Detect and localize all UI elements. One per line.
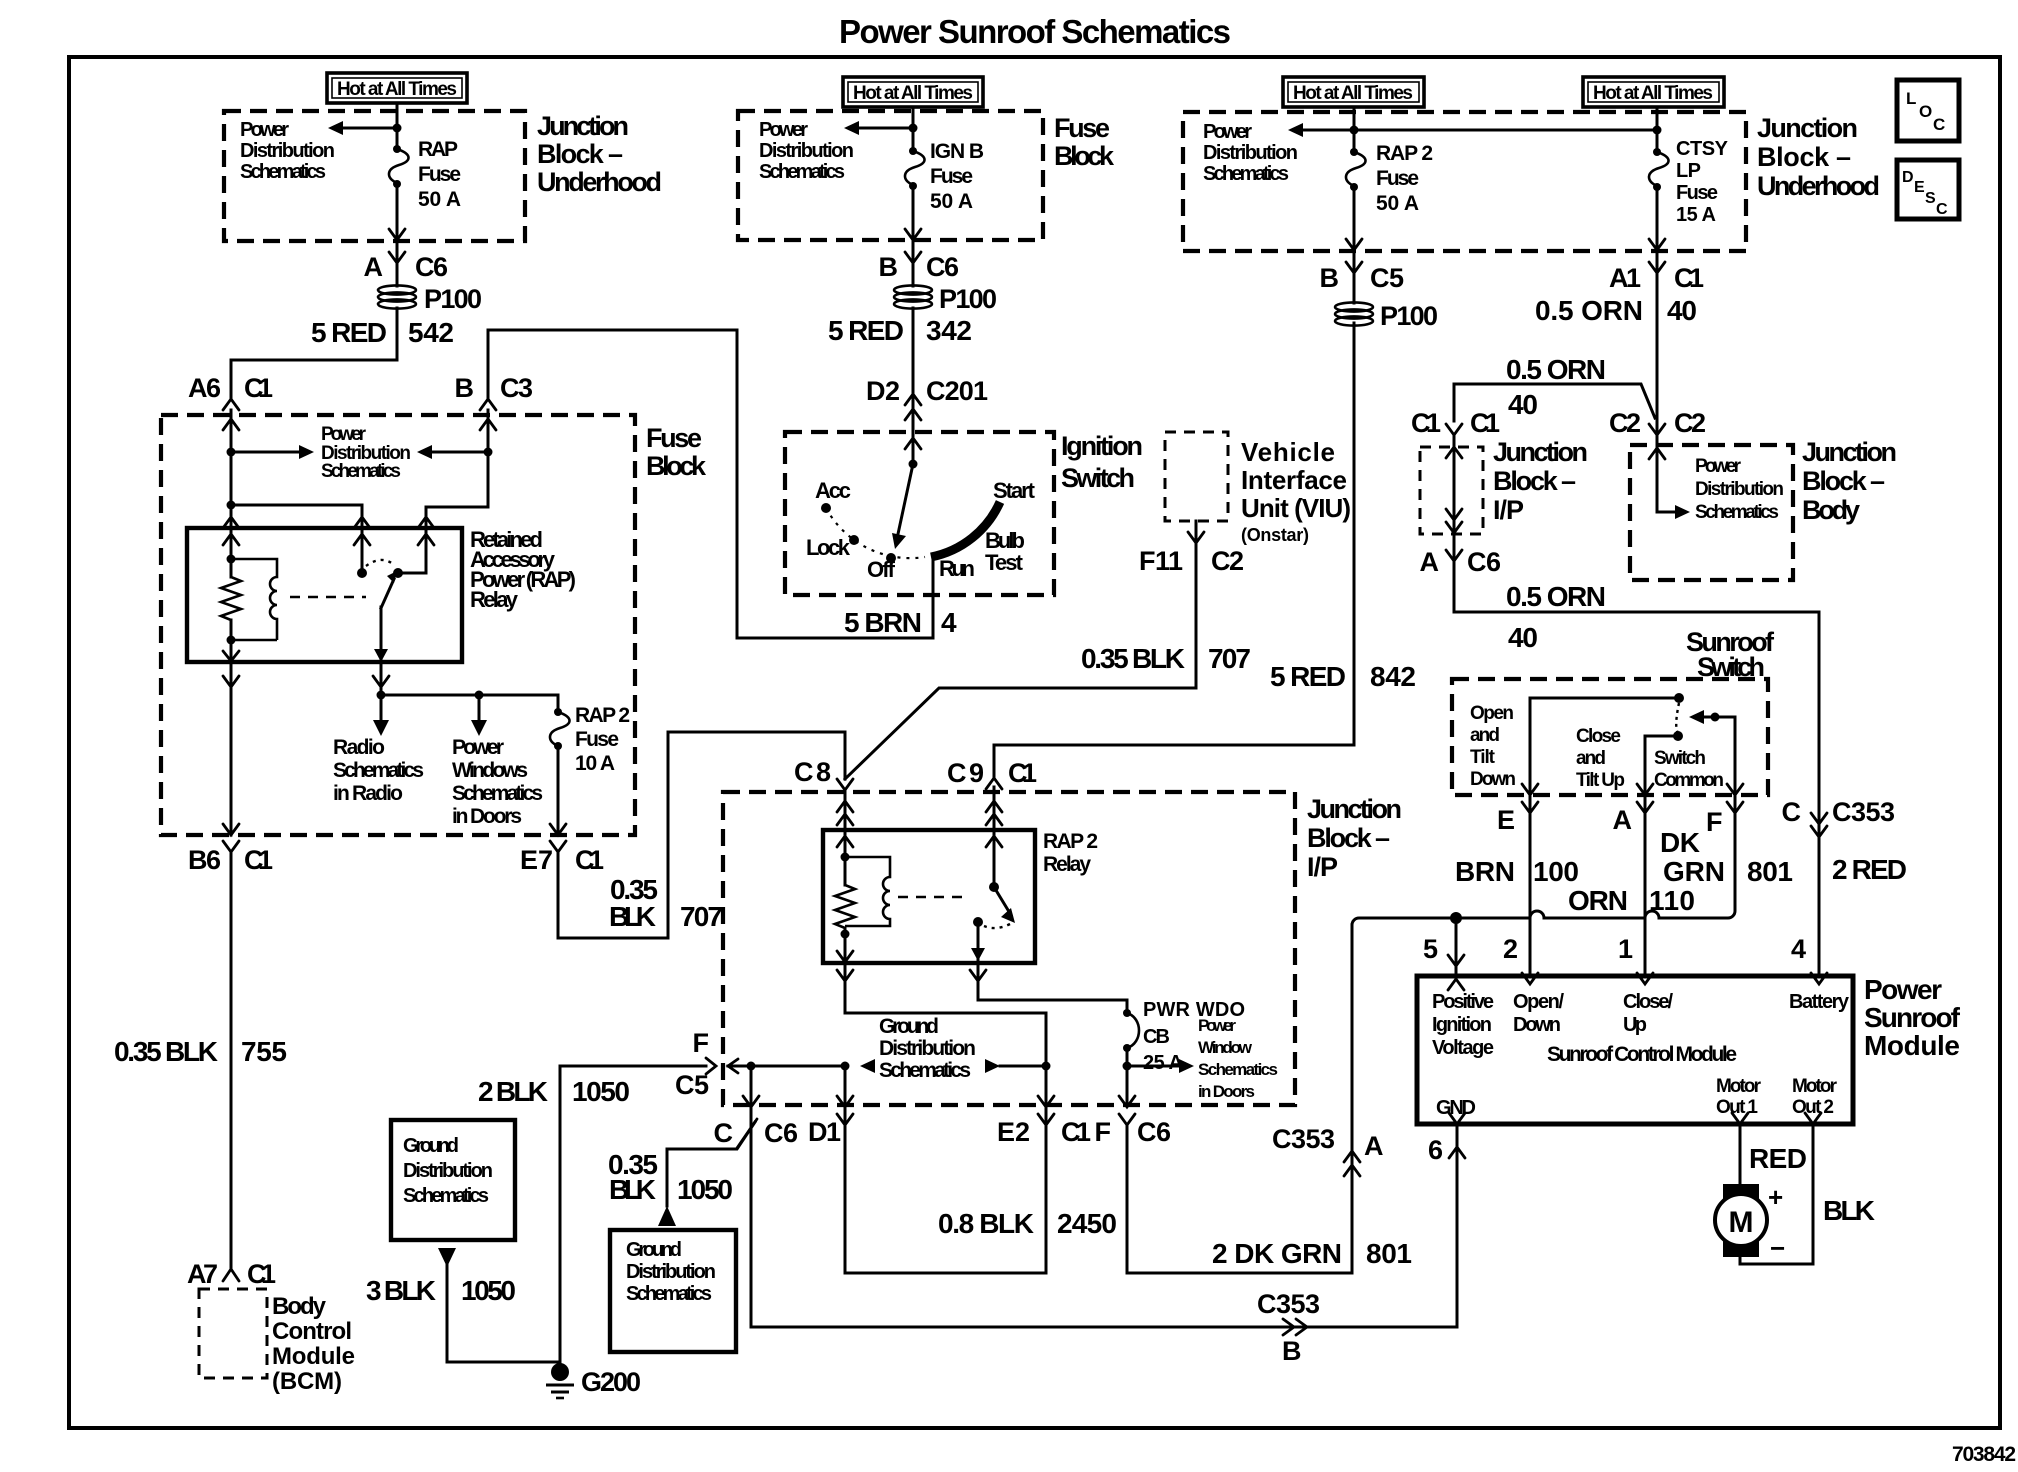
wire A C6 down, right, down to C C353 xyxy=(1454,534,1819,973)
svg-text:Block –: Block – xyxy=(1802,466,1885,496)
pin label Motor Out 1 xyxy=(1716,1076,1762,1118)
arrow right from label to E2 wire xyxy=(985,1059,1000,1073)
chevron below relay2 (output) xyxy=(970,970,986,981)
wire P100 down, left to A6 C1 xyxy=(231,308,397,399)
wire down to ignition switch xyxy=(912,308,915,464)
svg-text:Voltage: Voltage xyxy=(1432,1037,1494,1059)
wire fuse down through edge to C2 xyxy=(1656,187,1659,447)
label RAP 2 Fuse 10 A xyxy=(575,704,630,775)
wire label ORN 110 xyxy=(1568,885,1695,916)
svg-text:0.35 BLK: 0.35 BLK xyxy=(114,1036,218,1067)
svg-text:801: 801 xyxy=(1747,856,1793,887)
svg-text:Positive: Positive xyxy=(1432,991,1494,1013)
svg-text:Power: Power xyxy=(1198,1016,1236,1035)
svg-text:Schematics: Schematics xyxy=(626,1283,712,1305)
Power Sunroof Module box xyxy=(1417,976,1853,1124)
svg-text:C1: C1 xyxy=(247,1259,276,1289)
svg-text:Windows: Windows xyxy=(452,759,528,782)
wire label 0.5 ORN / 40 (to sunroof) xyxy=(1506,581,1606,653)
connector F11 C2 xyxy=(1139,532,1244,576)
chevron down at block edge (B6) xyxy=(223,824,239,835)
node dot (D1 branch) xyxy=(841,1062,850,1071)
dashed mechanical link (relay2) xyxy=(898,896,966,898)
connector E xyxy=(1497,802,1538,835)
relay2 coil wire xyxy=(844,830,847,885)
node dot (C C6 branch) xyxy=(747,1062,756,1071)
wire label 5 BRN 4 xyxy=(844,607,957,638)
arrow to Power Window Schematics in Doors xyxy=(1127,1065,1180,1068)
wire open contact down to E xyxy=(1529,698,1532,795)
svg-text:Schematics: Schematics xyxy=(1695,502,1779,523)
wire A down to module pin 1 xyxy=(1644,795,1647,976)
svg-text:and: and xyxy=(1576,748,1606,769)
label Power Distribution Schematics (jb2) xyxy=(1203,121,1298,185)
relay2 coil (inductor) xyxy=(845,857,890,926)
connector Motor Out 1 xyxy=(1732,1113,1748,1124)
svg-text:O: O xyxy=(1919,102,1932,121)
fuse RAP 2 Fuse 10 A xyxy=(550,708,570,750)
svg-text:1050: 1050 xyxy=(461,1275,516,1306)
motor M (sunroof motor) xyxy=(1715,1182,1785,1263)
connector pin 4 xyxy=(1791,934,1827,984)
relay2 output wire with arrow xyxy=(977,922,980,963)
svg-text:Power: Power xyxy=(452,736,504,759)
connector pin 1 xyxy=(1618,934,1653,984)
svg-text:Schematics: Schematics xyxy=(240,161,326,183)
wire relay2 output to PWR WDO CB xyxy=(978,963,1127,1012)
Fuse Block dashed box (left) xyxy=(161,415,635,835)
svg-text:C1: C1 xyxy=(1061,1117,1091,1147)
svg-text:D2: D2 xyxy=(866,376,900,406)
arrow right to label xyxy=(1675,505,1690,519)
label Power Window Schematics in Doors xyxy=(1198,1016,1278,1101)
svg-text:ORN: ORN xyxy=(1568,885,1628,916)
connector F C6 xyxy=(1095,1114,1172,1147)
svg-text:−: − xyxy=(1770,1233,1785,1263)
svg-text:Close/: Close/ xyxy=(1623,991,1673,1013)
svg-text:C1: C1 xyxy=(575,845,604,875)
svg-text:Switch: Switch xyxy=(1061,463,1135,493)
resistor bottom wire xyxy=(230,620,233,662)
label RAP Fuse 50 A xyxy=(418,138,461,211)
wire from Hot2 down xyxy=(912,107,915,150)
svg-text:(BCM): (BCM) xyxy=(272,1368,342,1395)
svg-text:Distribution: Distribution xyxy=(1695,479,1784,500)
svg-text:C5: C5 xyxy=(675,1070,709,1100)
svg-text:C6: C6 xyxy=(1137,1117,1171,1147)
svg-text:Block –: Block – xyxy=(1307,823,1390,853)
svg-text:Fuse: Fuse xyxy=(1376,167,1419,190)
svg-text:10 A: 10 A xyxy=(575,752,615,775)
grommet P100 (middle) xyxy=(894,284,997,314)
svg-text:Body: Body xyxy=(272,1293,327,1320)
connector C8 xyxy=(794,757,853,790)
Junction Block - I/P small dashed box xyxy=(1420,447,1483,534)
svg-text:2 DK GRN: 2 DK GRN xyxy=(1212,1238,1342,1269)
label Ignition Switch xyxy=(1061,431,1143,493)
connector B6 C1 xyxy=(188,841,273,875)
label Power Distribution Schematics (jb1) xyxy=(240,119,335,183)
svg-text:Radio: Radio xyxy=(333,736,385,759)
label RAP 2 Fuse 50 A xyxy=(1376,142,1433,215)
svg-text:Relay: Relay xyxy=(470,587,519,612)
arrow left to Ground Distribution Schematics xyxy=(860,1059,875,1073)
contact Off xyxy=(886,553,896,563)
svg-text:5: 5 xyxy=(1423,934,1438,964)
grommet P100 (left) xyxy=(378,284,482,314)
wire label 0.35 BLK 755 xyxy=(114,1036,287,1067)
connector Motor Out 2 xyxy=(1805,1113,1821,1124)
label Fuse Block (middle) xyxy=(1054,113,1115,171)
wire to P100 xyxy=(396,241,399,286)
svg-text:Ignition: Ignition xyxy=(1432,1014,1492,1036)
svg-text:Distribution: Distribution xyxy=(1203,142,1298,164)
svg-text:100: 100 xyxy=(1533,856,1579,887)
svg-text:in Doors: in Doors xyxy=(1198,1082,1255,1101)
ignition switch blade xyxy=(898,464,913,534)
svg-text:Open/: Open/ xyxy=(1513,991,1564,1013)
relay output wire with arrow xyxy=(380,607,383,662)
svg-text:DK: DK xyxy=(1660,827,1700,858)
wire label 5 RED 542 xyxy=(311,317,454,348)
label Retained Accessory Power (RAP) Relay xyxy=(470,527,576,612)
wire to Power Distribution arrow xyxy=(1657,447,1676,512)
chevron up inside ignition box xyxy=(905,438,921,449)
label PWR WDO CB 25 A xyxy=(1143,999,1245,1074)
svg-text:Out 1: Out 1 xyxy=(1716,1097,1758,1118)
svg-text:Ground: Ground xyxy=(403,1135,459,1157)
pin label Motor Out 2 xyxy=(1792,1076,1838,1118)
svg-text:Fuse: Fuse xyxy=(930,165,973,188)
svg-text:Power: Power xyxy=(759,119,808,141)
svg-text:Lock: Lock xyxy=(806,535,851,560)
contact Lock xyxy=(849,535,859,545)
svg-text:801: 801 xyxy=(1366,1238,1412,1269)
svg-text:Unit (VIU): Unit (VIU) xyxy=(1241,493,1351,523)
Ground Distribution Schematics box 2 xyxy=(610,1230,736,1352)
label RAP 2 Relay xyxy=(1043,830,1098,876)
svg-text:Schematics: Schematics xyxy=(879,1059,971,1082)
svg-text:RAP: RAP xyxy=(418,138,458,161)
svg-text:4: 4 xyxy=(1791,934,1806,964)
svg-text:Vehicle: Vehicle xyxy=(1241,437,1335,467)
node dot on B wire xyxy=(484,448,493,457)
svg-text:Block: Block xyxy=(1054,141,1115,171)
svg-text:C6: C6 xyxy=(926,252,959,282)
svg-text:Distribution: Distribution xyxy=(626,1261,716,1283)
svg-text:707: 707 xyxy=(680,901,723,932)
wire C C6 drop xyxy=(750,1066,753,1105)
svg-text:Underhood: Underhood xyxy=(1757,171,1880,201)
svg-text:0.5 ORN: 0.5 ORN xyxy=(1506,581,1606,612)
svg-text:2: 2 xyxy=(1503,934,1518,964)
svg-text:Distribution: Distribution xyxy=(403,1160,493,1182)
svg-text:C201: C201 xyxy=(926,376,988,406)
wire Run output down-left-up to B C3 xyxy=(488,330,933,638)
node dot at 231,505 and link to relay common xyxy=(227,501,236,510)
dashed travel arc Acc-Lock-Off-Run xyxy=(826,508,925,558)
Fuse Block dashed box (middle) xyxy=(738,111,1043,240)
connector B C3 xyxy=(455,373,534,410)
node dot branch xyxy=(475,691,484,700)
wire F down and left along bus with hops xyxy=(1352,795,1735,1165)
wire 3 BLK 1050 to G200 xyxy=(447,1264,560,1362)
chevron down at edge (E2) xyxy=(1038,1096,1054,1107)
svg-text:Hot at All Times: Hot at All Times xyxy=(337,79,457,100)
label Junction Block - Body xyxy=(1802,437,1897,525)
double chevron down inside (bottom) xyxy=(1446,509,1462,520)
Hot at All Times box 1 xyxy=(327,73,467,103)
svg-text:in Doors: in Doors xyxy=(452,805,522,828)
svg-text:F: F xyxy=(1706,807,1723,837)
wire D1 drop xyxy=(844,1066,847,1105)
svg-text:RAP 2: RAP 2 xyxy=(1043,830,1098,853)
label Power Distribution Schematics (fuse block) xyxy=(321,424,411,482)
node dot xyxy=(1653,126,1662,135)
connector A xyxy=(1613,802,1654,835)
svg-text:Fuse: Fuse xyxy=(575,728,619,751)
wire label 2 BLK 1050 xyxy=(478,1076,630,1107)
connector A7 C1 xyxy=(187,1259,276,1289)
wire A6 entering fuse block xyxy=(230,410,233,505)
svg-text:P100: P100 xyxy=(1380,301,1438,331)
svg-text:F: F xyxy=(693,1028,710,1058)
wire CB down to F C6 xyxy=(1126,1048,1129,1105)
wire link to relay switch-common xyxy=(231,505,362,528)
svg-text:5 BRN: 5 BRN xyxy=(844,607,922,638)
svg-text:P100: P100 xyxy=(424,284,482,314)
svg-text:Schematics: Schematics xyxy=(1198,1060,1278,1079)
wire label 0.5 ORN 40 (A1 wire) xyxy=(1535,295,1697,326)
chevron above relay box (231) xyxy=(223,517,239,528)
svg-text:E2: E2 xyxy=(997,1117,1030,1147)
connector F xyxy=(1706,802,1743,837)
double chevron (C9 wire) xyxy=(986,801,1002,812)
circuit breaker PWR WDO CB 25 A xyxy=(1123,1009,1139,1052)
label Switch Common xyxy=(1654,748,1724,791)
ground G200 xyxy=(546,1363,641,1398)
svg-text:Module: Module xyxy=(1864,1030,1960,1061)
svg-text:C6: C6 xyxy=(415,252,448,282)
svg-text:Battery: Battery xyxy=(1789,991,1850,1013)
wire label 0.8 BLK 2450 xyxy=(938,1208,1117,1239)
wire pin 5 drop xyxy=(1455,918,1458,976)
svg-text:A: A xyxy=(1613,805,1633,835)
svg-text:B: B xyxy=(1282,1336,1302,1366)
svg-text:Down: Down xyxy=(1513,1014,1561,1036)
chevron down at edge (A1) xyxy=(1649,239,1665,250)
wire distribution bus xyxy=(381,694,558,697)
label Bulb Test xyxy=(985,528,1025,575)
svg-text:B6: B6 xyxy=(188,845,221,875)
chevron down at edge (C) xyxy=(743,1096,759,1107)
relay blade travel (dotted arc) xyxy=(366,560,393,566)
svg-text:Schematics: Schematics xyxy=(321,461,401,482)
wire label 5 RED 342 xyxy=(828,315,972,346)
svg-text:C6: C6 xyxy=(764,1118,798,1148)
svg-text:Relay: Relay xyxy=(1043,853,1091,876)
Hot at All Times box 3 xyxy=(1283,77,1424,107)
svg-text:Schematics: Schematics xyxy=(1203,163,1289,185)
chevron up inside JB body xyxy=(1649,448,1665,459)
dashed mechanical link xyxy=(290,596,366,598)
relay NO contact wire jog xyxy=(402,528,426,573)
svg-text:40: 40 xyxy=(1667,295,1697,326)
fuse IGN B Fuse 50 A xyxy=(905,147,925,190)
node dot xyxy=(1350,126,1359,135)
svg-text:Body: Body xyxy=(1802,495,1860,525)
wire C C6 down to GND bus xyxy=(750,1105,753,1327)
svg-text:Ground: Ground xyxy=(626,1239,682,1261)
svg-text:A: A xyxy=(364,252,384,282)
svg-text:Motor: Motor xyxy=(1792,1076,1838,1097)
svg-text:C8: C8 xyxy=(794,757,831,787)
wire fuse down through edge xyxy=(1353,187,1356,303)
svg-text:542: 542 xyxy=(408,317,454,348)
svg-text:1050: 1050 xyxy=(572,1076,630,1107)
relay coil (inductor) xyxy=(231,559,277,640)
label Radio Schematics in Radio xyxy=(333,736,424,805)
chevron down inside box bottom (F) xyxy=(1727,784,1743,795)
svg-text:Schematics: Schematics xyxy=(759,161,845,183)
svg-text:IGN B: IGN B xyxy=(930,140,984,163)
svg-text:25 A: 25 A xyxy=(1143,1052,1183,1074)
label Open and Tilt Down xyxy=(1470,703,1516,790)
svg-text:342: 342 xyxy=(926,315,972,346)
svg-text:C: C xyxy=(1782,797,1802,827)
svg-text:C: C xyxy=(714,1118,734,1148)
wire 0.35 BLK 1050 branch to ground box xyxy=(667,1122,755,1206)
arrow to Power Distribution Schematics xyxy=(328,121,343,135)
connector A C6 xyxy=(1420,547,1502,577)
svg-text:Interface: Interface xyxy=(1241,465,1347,495)
wire GND pin 6 to G200 bus xyxy=(751,1124,1457,1327)
wire F11 to C8 diagonal xyxy=(845,688,1196,779)
Junction Block - Underhood dashed box 2 xyxy=(1183,112,1746,251)
svg-text:Open: Open xyxy=(1470,703,1514,724)
wire label 0.35 BLK 707 (right) xyxy=(1081,643,1251,674)
svg-text:RAP 2: RAP 2 xyxy=(1376,142,1433,165)
svg-text:5 RED: 5 RED xyxy=(828,315,904,346)
connector B C6 xyxy=(879,252,960,282)
chevron up inside relay2 (coil) xyxy=(837,836,853,847)
label Power Windows Schematics in Doors xyxy=(452,736,543,828)
Junction Block - I/P dashed box (center) xyxy=(723,792,1295,1105)
svg-text:842: 842 xyxy=(1370,661,1416,692)
svg-text:A: A xyxy=(1420,547,1440,577)
svg-text:E: E xyxy=(1914,179,1925,196)
svg-text:Schematics: Schematics xyxy=(333,759,424,782)
wire label 3 BLK 1050 xyxy=(366,1275,516,1306)
svg-text:CTSY: CTSY xyxy=(1676,138,1729,160)
off-page triangle (0.35 BLK 1050) xyxy=(658,1206,676,1226)
label Body Control Module (BCM) xyxy=(272,1293,355,1395)
svg-text:Ignition: Ignition xyxy=(1061,431,1143,461)
svg-text:Power: Power xyxy=(240,119,289,141)
svg-text:C2: C2 xyxy=(1674,408,1706,438)
wire from Hot1 into block xyxy=(396,103,399,148)
svg-text:BRN: BRN xyxy=(1455,856,1515,887)
Junction Block - Body dashed box xyxy=(1630,445,1793,580)
arrow right into Power Distribution label xyxy=(299,445,314,459)
svg-text:Sunroof Control Module: Sunroof Control Module xyxy=(1547,1043,1737,1066)
relay2 common wire xyxy=(993,830,996,884)
svg-text:Fuse: Fuse xyxy=(1054,113,1110,143)
connector pin 5 xyxy=(1423,934,1464,990)
wire from Hot3 down xyxy=(1353,107,1356,151)
connector E7 C1 xyxy=(520,841,604,875)
wire close contact to A xyxy=(1645,736,1678,795)
relay switch blade xyxy=(381,579,394,608)
svg-text:F11: F11 xyxy=(1139,546,1183,576)
connector C C353 xyxy=(1782,797,1896,837)
switch contact open/tilt-down xyxy=(1530,697,1679,700)
svg-text:A1: A1 xyxy=(1609,263,1641,293)
Hot at All Times box 2 xyxy=(843,77,983,107)
switch contact close/tilt-up (dotted travel) xyxy=(1676,703,1679,733)
wire 2 DK GRN 801: F C6 down, right, up through C353 A xyxy=(1127,925,1352,1273)
arrow to Power Distribution Schematics xyxy=(1288,123,1303,137)
svg-text:Hot at All Times: Hot at All Times xyxy=(1593,83,1713,104)
DESC reference box xyxy=(1897,160,1959,219)
svg-text:C: C xyxy=(1936,201,1948,218)
svg-text:B: B xyxy=(1320,263,1340,293)
connector D2 C201 xyxy=(866,376,988,420)
svg-text:Junction: Junction xyxy=(1802,437,1897,467)
svg-text:5 RED: 5 RED xyxy=(1270,661,1346,692)
svg-text:Sunroof: Sunroof xyxy=(1864,1002,1961,1033)
svg-text:Run: Run xyxy=(939,556,975,581)
double chevron (C8 wire) xyxy=(837,801,853,812)
resistor (RAP 2 relay) xyxy=(835,885,855,928)
svg-text:Switch: Switch xyxy=(1654,748,1706,769)
wire to RAP 2 fuse xyxy=(557,695,560,712)
Body Control Module (BCM) dashed box xyxy=(199,1289,267,1378)
label Fuse Block (left) xyxy=(646,423,707,481)
svg-text:Fuse: Fuse xyxy=(646,423,702,453)
svg-text:C2: C2 xyxy=(1609,408,1641,438)
svg-text:RED: RED xyxy=(1749,1143,1807,1174)
label Junction Block - I/P (small) xyxy=(1493,437,1588,525)
svg-text:CB: CB xyxy=(1143,1026,1170,1048)
svg-text:I/P: I/P xyxy=(1307,852,1338,882)
svg-text:Power: Power xyxy=(1203,121,1252,143)
svg-text:Distribution: Distribution xyxy=(759,140,854,162)
LOC reference box xyxy=(1897,80,1959,141)
connector chevron below relay (coil return) xyxy=(223,676,239,687)
label Junction Block - Underhood (right) xyxy=(1757,113,1880,201)
svg-text:B: B xyxy=(455,373,475,403)
svg-text:Block –: Block – xyxy=(537,139,623,169)
relay2 blade xyxy=(994,887,1011,915)
switch common blade arrow xyxy=(1711,713,1720,722)
svg-text:C353: C353 xyxy=(1832,797,1895,827)
svg-text:C353: C353 xyxy=(1257,1289,1320,1319)
svg-text:Control: Control xyxy=(272,1318,352,1345)
svg-text:F: F xyxy=(1095,1117,1112,1147)
wire B into block down and jog to relay xyxy=(426,410,488,528)
node dot xyxy=(227,448,236,457)
label Power Distribution Schematics (jb body) xyxy=(1695,456,1784,523)
svg-text:Tilt: Tilt xyxy=(1470,747,1496,768)
svg-text:Junction: Junction xyxy=(1493,437,1588,467)
chevron above relay box (362) xyxy=(354,517,370,528)
svg-text:C2: C2 xyxy=(1211,546,1244,576)
svg-text:703842: 703842 xyxy=(1952,1443,2016,1466)
wire 0.8 BLK 2450 loop D1 to E2 xyxy=(845,1105,1046,1273)
wire relay2 coil return to E2 xyxy=(845,963,1046,1105)
svg-text:Schematics: Schematics xyxy=(403,1185,489,1207)
